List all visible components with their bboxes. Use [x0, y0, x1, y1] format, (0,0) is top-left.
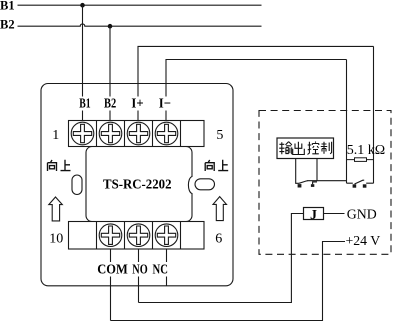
wire B1 drop to terminal: [82, 5, 84, 121]
mounting slot right: [195, 179, 215, 190]
wire COM to +24V: [111, 242, 346, 321]
arrow up left: [49, 197, 63, 221]
svg-text:TS-RC-2202: TS-RC-2202: [103, 178, 172, 193]
label chu (output control char 2): [293, 142, 305, 155]
svg-text:J: J: [310, 208, 317, 223]
junction dot B1: [80, 3, 85, 8]
node B2 label: [0, 18, 15, 32]
svg-text:+24 V: +24 V: [346, 233, 381, 248]
mounting slot left: [72, 175, 82, 195]
svg-text:I+: I+: [131, 95, 143, 110]
wire I+ riser and run: [138, 46, 374, 121]
wire B2 drop to terminal: [109, 26, 111, 121]
svg-text:COM: COM: [97, 263, 128, 278]
screw terminal NO: [127, 224, 150, 247]
resistor 5.1k body: [355, 158, 367, 162]
label shu (output control char 1): [279, 142, 292, 155]
label xiangshang left: [48, 160, 71, 171]
wire I+ drop into dashed box: [373, 46, 375, 183]
svg-text:I−: I−: [159, 95, 171, 110]
label zhi (output control char 4): [321, 142, 332, 154]
dashed control box: [259, 111, 391, 255]
svg-text:GND: GND: [347, 206, 377, 221]
resistor leads: [347, 159, 374, 161]
screw terminal 4 (I-): [155, 122, 178, 145]
screw terminal 1 (B1): [71, 122, 94, 145]
module outline TS-RC-2202: [41, 84, 233, 286]
terminal block top: [69, 121, 205, 147]
monitor switch arm: [355, 180, 365, 184]
screw terminal 2 (B2): [99, 122, 122, 145]
control switch left contact b: [311, 184, 314, 187]
pin labels bottom: [97, 263, 168, 278]
label kong (output control char 3): [308, 142, 319, 155]
module centre panel: [86, 147, 192, 222]
screw terminal 3 (I+): [127, 122, 150, 145]
wire J to GND: [324, 213, 345, 215]
svg-text:10: 10: [49, 232, 63, 247]
label xiangshang right: [205, 160, 228, 171]
monitor switch wires: [347, 182, 374, 184]
control switch left arm: [299, 181, 308, 183]
monitor switch contact b: [363, 184, 367, 187]
svg-text:B1: B1: [79, 95, 91, 110]
terminal block bottom: [69, 222, 205, 250]
svg-text:NC: NC: [153, 263, 168, 278]
arrow up right: [213, 197, 227, 221]
wire B1 bus: [18, 4, 262, 6]
junction dot B2: [108, 24, 113, 29]
wire NO to J: [139, 214, 304, 303]
control switch left contact a: [298, 184, 302, 187]
svg-text:B2: B2: [104, 95, 116, 110]
wire I- riser and run: [166, 60, 347, 122]
svg-text:1: 1: [52, 128, 59, 143]
wire B2 bus (with hop over B1 drop): [18, 24, 262, 26]
pin labels top: [79, 95, 171, 110]
wire COM stub: [110, 249, 112, 321]
svg-text:B2: B2: [0, 18, 15, 32]
svg-text:B1: B1: [0, 0, 15, 12]
wire NO stub: [138, 249, 140, 303]
svg-text:5: 5: [216, 128, 223, 143]
wire I- drop into dashed box: [346, 60, 348, 184]
screw terminal COM: [99, 224, 122, 247]
svg-text:5.1 kΩ: 5.1 kΩ: [347, 143, 385, 158]
wire NC stub: [166, 249, 168, 286]
control switch left wires: [296, 159, 347, 185]
svg-text:NO: NO: [132, 263, 147, 278]
output control box: [277, 138, 334, 159]
relay J box: [304, 208, 324, 220]
monitor switch contact a: [353, 184, 357, 187]
node B1 label: [0, 0, 15, 12]
svg-text:6: 6: [215, 231, 222, 246]
screw terminal NC: [155, 224, 178, 247]
